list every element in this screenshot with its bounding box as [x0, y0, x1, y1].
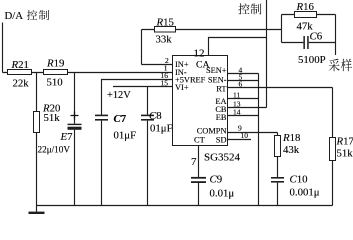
wire: D/A control input drop	[2, 23, 4, 73]
capacitor C9 plates	[191, 177, 206, 179]
svg-text:SG3524: SG3524	[204, 152, 241, 164]
wire: pin 12 lead up and over to control net	[209, 38, 267, 56]
svg-text:12: 12	[194, 48, 205, 60]
node 采样 (sample)	[329, 59, 352, 72]
svg-text:01μF: 01μF	[114, 130, 137, 142]
svg-text:15: 15	[161, 79, 169, 88]
resistor R19	[44, 70, 68, 75]
svg-text:5100P: 5100P	[298, 54, 326, 66]
svg-text:R16: R16	[296, 1, 315, 13]
wire: grounded bus joining pins 4,5,11,14	[258, 74, 260, 206]
wire: pin 13 lead to control net	[228, 107, 267, 109]
wire: pin 9 COMP lead to R18	[228, 132, 278, 134]
wire: ground rail	[37, 205, 333, 207]
wire: pin 5 lead	[228, 80, 259, 82]
wire: pin 7 CT drop through C9	[198, 146, 200, 206]
svg-text:SEN+: SEN+	[206, 66, 227, 75]
capacitor C7 plates	[95, 115, 108, 117]
resistor R20	[34, 112, 40, 133]
capacitor E7 electrolytic plates	[68, 124, 82, 125]
wire: pin 10 SD stub	[228, 139, 252, 141]
svg-text:22μ/10V: 22μ/10V	[38, 145, 71, 155]
wire: pin 15 VI+ lead (+12V stub) and C8 drop	[113, 87, 173, 206]
svg-text:22k: 22k	[13, 77, 30, 89]
svg-text:51k: 51k	[337, 148, 353, 160]
wire: R18/C10 branch down	[277, 133, 279, 206]
wire: pin 16 +5VREF lead and C7 drop	[102, 80, 173, 206]
svg-text:0.001μ: 0.001μ	[290, 186, 320, 198]
wire: main input net to pin 1	[3, 72, 173, 74]
svg-text:C6: C6	[310, 31, 323, 43]
svg-text:33k: 33k	[156, 33, 173, 45]
capacitor C8 plates	[141, 115, 154, 117]
svg-text:10: 10	[241, 131, 249, 140]
svg-text:VI+: VI+	[175, 83, 189, 92]
wire: C6 leads	[282, 42, 336, 44]
ground	[36, 206, 38, 212]
svg-text:CT: CT	[194, 136, 205, 145]
capacitor C10 plates	[271, 177, 284, 179]
wire: pin 11 lead	[228, 98, 259, 100]
capacitor C6 plates (vertical)	[303, 36, 305, 49]
resistor R21	[8, 70, 32, 75]
resistor R18	[275, 136, 281, 157]
node 控制 (control) top	[238, 3, 261, 14]
resistor R15	[155, 27, 176, 33]
svg-text:RT: RT	[216, 84, 226, 93]
resistor R16	[295, 12, 317, 18]
wire: R16/C6 right junction down to sampling label	[335, 15, 337, 56]
op-amp U1 : SG3524 IC body	[173, 56, 228, 146]
svg-text:D/A: D/A	[5, 10, 24, 22]
svg-text:43k: 43k	[283, 144, 300, 156]
wire: E7 branch down	[74, 73, 76, 206]
svg-text:COMPN: COMPN	[197, 126, 227, 135]
svg-text:R17: R17	[336, 136, 353, 148]
svg-text:R19: R19	[46, 58, 64, 70]
wire: pin 4 lead	[228, 73, 259, 75]
svg-text:E7: E7	[60, 131, 74, 143]
svg-text:SEN-: SEN-	[208, 75, 227, 84]
wire: pin 6 RT lead over to R17	[228, 87, 333, 89]
svg-text:R18: R18	[282, 132, 300, 144]
wire: R15 feedback loop (vert + top horiz to R16 net)	[142, 30, 282, 65]
svg-text:C9: C9	[210, 174, 223, 186]
wire: control net vertical from top edge to pin 13	[266, 0, 268, 108]
svg-text:EB: EB	[216, 113, 227, 122]
svg-text:01μF: 01μF	[150, 122, 173, 134]
svg-text:14: 14	[233, 107, 241, 116]
resistor R17	[330, 138, 336, 161]
ground bar	[29, 212, 45, 215]
svg-text:6: 6	[239, 79, 243, 88]
svg-text:C8: C8	[149, 110, 162, 122]
svg-text:+12V: +12V	[107, 90, 131, 101]
wire: R16 top lead	[282, 14, 336, 16]
wire: pin 14 lead	[228, 115, 259, 117]
svg-text:0.01μ: 0.01μ	[210, 187, 235, 199]
wire: R16/C6 left junction vertical	[281, 15, 283, 43]
svg-text:R15: R15	[156, 16, 174, 28]
wire: pin 2 lead	[142, 64, 173, 66]
wire: R17 branch down	[332, 88, 334, 206]
svg-text:11: 11	[233, 90, 240, 99]
svg-text:R21: R21	[11, 59, 29, 71]
svg-text:51k: 51k	[44, 112, 61, 124]
wire: R20 branch down to ground rail	[36, 73, 38, 206]
svg-text:7: 7	[191, 156, 197, 168]
svg-text:510: 510	[47, 77, 63, 89]
svg-text:C7: C7	[114, 113, 127, 125]
svg-text:SD: SD	[216, 136, 227, 145]
plus sign of E7	[71, 112, 79, 120]
svg-text:C10: C10	[290, 174, 308, 186]
